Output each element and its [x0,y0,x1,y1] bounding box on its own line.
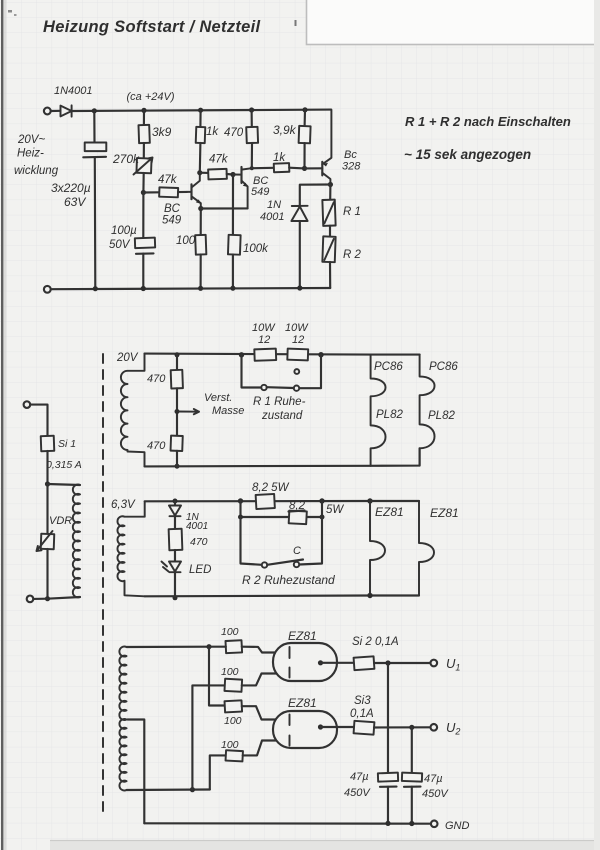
svg-text:Verst.: Verst. [204,392,232,404]
svg-text:470: 470 [190,536,208,548]
node rail-470 [249,107,254,112]
svg-text:~ 15 sek angezogen: ~ 15 sek angezogen [404,147,531,162]
transistor Q1 BC549 [190,184,192,199]
speck [8,10,12,13]
scan artifact: top-right gray band [307,0,600,45]
node Q3 collector / flyback [328,182,333,187]
svg-text:328: 328 [342,161,361,173]
dashed separator line [102,354,104,812]
EZ81 heater left [370,501,385,596]
node 3,9k / Q3 base [302,166,307,171]
switch S2 contact left [262,562,267,567]
wire V1 cathode to fuse Si2 [321,662,355,664]
node 470 chain bottom [175,464,180,469]
potentiometer P 270k [143,143,145,158]
svg-text:450V: 450V [422,788,449,800]
wire pot to node [142,173,144,193]
svg-text:C: C [293,545,301,557]
resistor R 470 lower [171,436,183,451]
svg-text:1k: 1k [273,152,286,164]
node U1-C3 [385,660,390,665]
wire winding top to node A [127,646,210,648]
wire primary bottom [48,597,81,599]
svg-text:8,2 5W: 8,2 5W [252,482,290,494]
resistor R 470 pilot [174,516,176,529]
parallel path wires [241,501,290,517]
wire between 470s [176,388,178,436]
diode D 1N4001 pilot [174,501,176,506]
node C3-GND [385,821,390,826]
node U2-C4 [409,725,414,730]
tube heater chain PC86+PL82 right [420,355,435,466]
svg-text:EZ81: EZ81 [288,696,317,710]
diode D1 1N4001 [61,105,72,116]
svg-text:Masse: Masse [212,405,244,417]
resistor R 100 (emitters) [200,209,202,236]
svg-text:R 1: R 1 [343,206,361,218]
resistor R 3k9 [143,110,145,125]
resistor R 470 (collector Q2) [251,110,253,127]
node flyback-rail [297,285,302,290]
svg-text:4001: 4001 [260,211,284,223]
resistor R 1k (collector Q1) [199,110,201,127]
EZ81 box bottom edge [370,594,419,596]
svg-text:12: 12 [258,334,270,346]
svg-text:63V: 63V [64,195,86,209]
node Q2 collector / 1k [250,166,254,170]
resistor R 1k (to Q3 base) [252,167,274,170]
switch S1 arm [267,386,294,389]
bottom rail 0V [51,288,331,289]
resistor R 12 10W left [254,349,276,361]
6,3V bottom rail [145,594,370,597]
terminal U1 [431,660,438,667]
wire V2 cathode to fuse Si3 [321,726,355,728]
V2 anode plate 1 [289,715,291,726]
svg-text:PC86: PC86 [429,361,458,373]
V1 anode plate 2 [289,668,291,678]
svg-text:EZ81: EZ81 [288,629,317,643]
wire to Q3 base [305,167,323,169]
resistor R 47k (base Q1) [143,191,159,193]
resistor R 3,9k [304,110,307,126]
V2 cathode [318,724,323,729]
svg-text:Heiz-: Heiz- [17,148,44,160]
switch S1 contact right [294,386,299,391]
svg-text:PC86: PC86 [374,361,403,373]
resistor R 100 branch3 [225,700,243,712]
svg-text:GND: GND [445,820,470,832]
svg-text:EZ81: EZ81 [430,506,459,520]
arrow to Verst. Masse [179,409,200,414]
node Verst. Masse tap [175,409,180,414]
svg-text:1N4001: 1N4001 [54,85,93,97]
fuse Si2 0,1A [354,656,375,670]
resistor R 12 10W right [287,349,308,361]
node primary bottom [45,596,50,601]
flyback diode 1N4001 [300,185,331,206]
resistor R 8,2 5W upper [256,494,275,509]
svg-text:Si 2 0,1A: Si 2 0,1A [352,636,399,648]
node A [206,644,211,649]
svg-text:47µ: 47µ [350,771,369,783]
svg-text:wicklung: wicklung [14,165,59,177]
node rail-pilot branch [173,499,178,504]
node C1-rail [93,286,98,291]
svg-text:VDR: VDR [49,515,72,527]
svg-text:R 1 Ruhe-: R 1 Ruhe- [253,396,306,408]
node C4-GND [409,821,414,826]
wire winding bottom [127,788,210,791]
node rail-8,2 right [319,498,324,503]
node Q2 base / 100k [230,172,235,177]
resistor R 470 upper [176,354,178,370]
node parallel left [238,515,243,520]
node rail-C1 [92,108,97,113]
terminal U2 [431,724,438,731]
node C2-rail [141,286,146,291]
scan artifact: bottom gray band [50,840,600,850]
tube V1 EZ81 envelope [273,643,337,681]
20V bottom rail [145,465,371,468]
svg-text:BC: BC [164,203,181,215]
node rail-1k [198,108,203,113]
svg-text:12: 12 [292,334,304,346]
svg-text:(ca +24V): (ca +24V) [127,91,175,103]
svg-text:100: 100 [224,715,242,727]
terminal mains top [24,401,31,408]
resistor R 8,2 lower [289,511,307,525]
winding 6,3V [117,501,144,596]
GND rail [144,822,430,825]
center tap to GND [128,720,145,824]
svg-text:100k: 100k [243,243,269,255]
6,3V top rail [145,500,370,502]
wire R1-R2 [329,226,331,237]
resistor R 47k (Q1 collector to Q2 base) [200,172,209,174]
relay coil R2 [322,236,335,262]
scan artifact: left dark edge [1,0,3,850]
svg-text:100: 100 [221,666,239,678]
svg-text:R 1 + R 2 nach Einschalten: R 1 + R 2 nach Einschalten [405,114,571,129]
capacitor C4 47u 450V [411,727,413,773]
transistor Q3 BC328 [321,162,323,176]
svg-text:6,3V: 6,3V [111,499,136,511]
node emitter join [198,206,203,211]
HV winding lower [119,719,126,790]
svg-text:549: 549 [162,215,182,227]
capacitor C1 3x220u 63V [93,111,95,143]
svg-text:450V: 450V [344,787,371,799]
relay coil R1 [329,185,331,200]
svg-text:470: 470 [147,440,166,452]
svg-text:Bc: Bc [344,149,357,161]
terminal mains bottom [27,596,34,603]
switch S1 bypass wires [242,355,322,389]
resistor R 100 branch2 [224,679,242,692]
svg-text:zustand: zustand [261,410,303,422]
node 100k-rail [230,286,235,291]
V2 anode plate 2 [289,736,291,746]
svg-text:10W: 10W [252,322,276,334]
V1 anode plate 1 [289,647,291,658]
svg-text:47k: 47k [209,154,229,166]
primary winding [73,485,80,598]
svg-text:3x220µ: 3x220µ [51,181,91,195]
vertical C to branch 4 [210,755,226,789]
svg-text:1k: 1k [206,126,219,138]
svg-text:3,9k: 3,9k [273,123,297,137]
node B [190,787,195,792]
node rail-switch left [239,352,244,357]
svg-text:PL82: PL82 [376,409,403,421]
svg-text:Si3: Si3 [354,695,371,707]
node rail-switch right [318,352,323,357]
EZ81 heater right [419,501,434,596]
tube heater chain PC86+PL82 left [371,355,386,466]
svg-text:0,1A: 0,1A [350,708,374,720]
capacitor C3 47u 450V [387,663,389,773]
VDR [46,484,48,534]
vertical A to branch 3 [209,647,225,706]
svg-text:5W: 5W [326,504,344,516]
wire LED to bottom rail [174,572,176,598]
wire top rail +24V [72,110,332,111]
node parallel right [320,515,325,520]
switch S2 arm [267,560,303,565]
node Q1 collector / 47k2 [197,170,202,175]
node pot/47k/C2 [141,190,146,195]
wire emitter Q2 to emitter Q1 [201,207,248,209]
node 6,3V bottom rail - box [367,593,372,598]
node rail-470 chain top [175,352,180,357]
wire fuse to U1 [374,662,430,664]
wire node to primary winding [48,484,81,485]
svg-text:270k: 270k [112,152,140,166]
svg-text:EZ81: EZ81 [375,505,404,519]
svg-text:0,315 A: 0,315 A [46,459,82,471]
node rail-8,2 left [238,498,243,503]
svg-text:47k: 47k [158,174,178,186]
svg-text:Heizung Softstart / Netzteil: Heizung Softstart / Netzteil [43,18,261,36]
wire fuse to U2 [374,726,430,728]
svg-text:1N: 1N [267,199,281,211]
vertical B to branch 2 [192,685,224,789]
svg-text:100: 100 [221,626,239,638]
node primary top [45,481,50,486]
svg-text:549: 549 [251,186,269,198]
node 100-rail [198,286,203,291]
resistor R 100 branch4 [226,750,243,761]
terminal bottom-left [44,286,51,293]
LED [174,550,176,562]
svg-text:50V: 50V [109,239,131,251]
20V top rail [145,354,371,355]
svg-text:4001: 4001 [186,521,208,532]
winding 20V [121,354,145,467]
svg-text:3k9: 3k9 [152,125,172,139]
resistor R 100k [232,175,234,240]
wire fuse to node [46,451,48,484]
svg-text:47µ: 47µ [424,773,443,785]
wire terminal to diode D1 [51,110,61,112]
capacitor C2 100u 50V [142,193,144,239]
fuse Si1 0,315A [41,436,55,451]
node LED-rail [173,595,178,600]
terminal top-left [44,108,51,115]
svg-text:100: 100 [176,235,196,247]
node rail-3,9k [302,107,307,112]
wire VDR to bottom [46,549,48,599]
fuse Si3 0,1A [354,721,375,735]
transistor Q2 BC549 [240,167,242,183]
switch S2 contact right [294,562,299,567]
heater box top edge [371,354,420,356]
node rail-3k9 [141,108,146,113]
svg-text:PL82: PL82 [428,410,455,422]
wire to fuse [30,405,47,436]
resistor R 100 branch1 [225,640,242,653]
wire R2 to bottom rail [329,262,331,288]
svg-text:Si 1: Si 1 [58,438,76,450]
switch S2 wires [241,517,323,565]
terminal GND [431,821,438,828]
HV winding upper [119,647,126,720]
svg-text:10W: 10W [285,322,309,334]
EZ81 box top edge [370,500,419,502]
V1 cathode [318,660,323,665]
scan artifact: right light edge [594,0,600,850]
svg-text:470: 470 [147,373,166,385]
svg-text:100µ: 100µ [111,225,137,237]
switch S1 open throw [294,369,299,374]
heater box bottom edge [371,448,420,466]
switch S1 contact left [261,385,266,390]
svg-text:100: 100 [221,739,239,751]
svg-text:20V: 20V [116,352,139,364]
svg-text:LED: LED [189,564,211,576]
svg-text:R 2: R 2 [343,249,362,261]
tube V2 EZ81 envelope [273,711,337,748]
node 6,3V rail - EZ81 box [367,498,372,503]
svg-text:20V~: 20V~ [17,134,45,146]
svg-text:R 2 Ruhezustand: R 2 Ruhezustand [242,573,335,587]
svg-text:470: 470 [224,127,244,139]
